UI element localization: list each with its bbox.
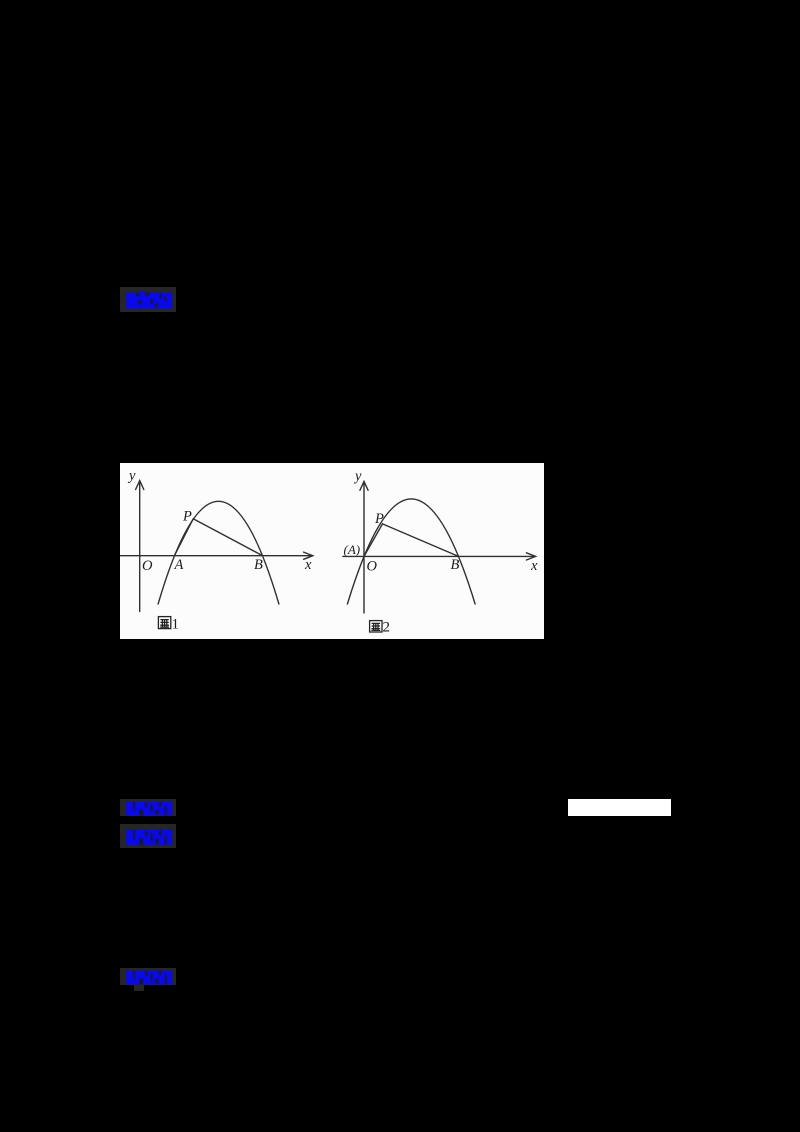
- fig2 parabola: [347, 499, 475, 604]
- svg-text:y: y: [127, 468, 136, 484]
- svg-text:y: y: [353, 469, 362, 485]
- fig1 segment PB: [193, 519, 262, 556]
- fig2 y-axis: [363, 482, 365, 613]
- svg-text:P: P: [182, 509, 192, 525]
- blue label 4: [126, 970, 173, 985]
- blue label 3: [126, 829, 173, 846]
- fig1 parabola: [158, 501, 279, 604]
- label box 2 (【考点】 highlight): [120, 799, 176, 816]
- fig1 caption 图1: [158, 617, 170, 629]
- svg-text:(A): (A): [344, 542, 361, 557]
- white highlight rectangle: [568, 799, 671, 816]
- fig1 x-axis: [121, 555, 312, 557]
- label box 4 (【解答】 highlight): [120, 968, 176, 985]
- svg-text:B: B: [451, 557, 460, 573]
- svg-text:2: 2: [383, 620, 391, 636]
- svg-text:O: O: [367, 559, 378, 575]
- svg-text:1: 1: [172, 617, 180, 633]
- fig2 segment OP: [364, 524, 383, 557]
- svg-text:x: x: [304, 557, 312, 573]
- fig2 x-axis: [343, 555, 534, 557]
- svg-text:B: B: [254, 557, 263, 573]
- fig2 segment PB: [383, 524, 459, 557]
- label box 3 (【分析】 highlight): [120, 824, 176, 848]
- fig2 caption 图2: [370, 621, 382, 632]
- svg-text:O: O: [142, 558, 153, 574]
- svg-text:P: P: [374, 511, 384, 527]
- small highlight tab under label 4: [134, 985, 144, 991]
- blue label 1: [126, 291, 173, 310]
- figure panel (two parabola figures): [120, 463, 544, 639]
- fig1 y-axis: [139, 481, 141, 612]
- blue label 2: [126, 801, 173, 816]
- svg-text:x: x: [530, 558, 538, 574]
- svg-text:A: A: [174, 557, 184, 573]
- label box 1 (【答案】 highlight): [120, 287, 176, 312]
- fig1 segment AP: [174, 519, 193, 556]
